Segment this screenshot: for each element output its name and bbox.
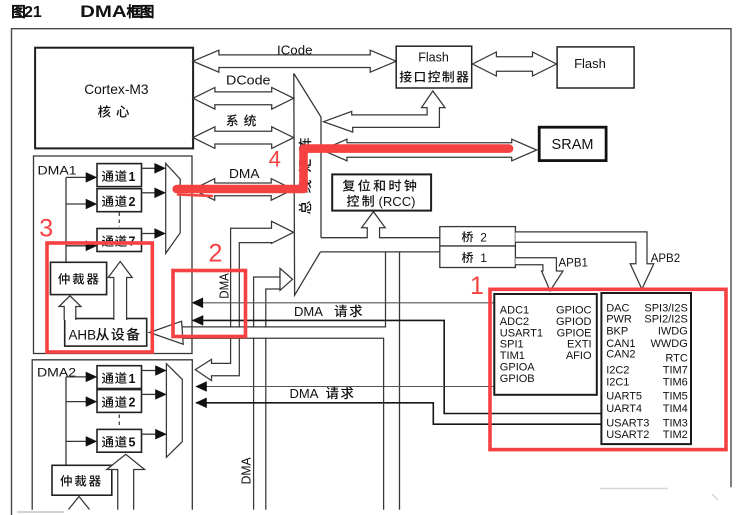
svg-text:USART3: USART3 [606, 418, 649, 430]
svg-text:APB1: APB1 [559, 258, 588, 270]
svg-text:I2C1: I2C1 [606, 376, 629, 388]
svg-text:TIM6: TIM6 [663, 376, 688, 388]
svg-text:APB2: APB2 [651, 253, 680, 265]
svg-text:4: 4 [269, 147, 281, 172]
svg-text:UART5: UART5 [606, 390, 642, 402]
svg-text:1: 1 [480, 251, 487, 265]
svg-text:1: 1 [129, 170, 136, 184]
svg-text:2: 2 [129, 195, 136, 209]
svg-text:I2C2: I2C2 [606, 365, 629, 377]
svg-text:AHB: AHB [69, 328, 97, 343]
svg-text:2: 2 [129, 396, 136, 410]
svg-text:1: 1 [129, 372, 136, 386]
svg-text:GPIOA: GPIOA [500, 362, 536, 374]
svg-text:GPIOC: GPIOC [556, 305, 592, 317]
svg-text:DMA: DMA [80, 3, 127, 21]
svg-text:ADC1: ADC1 [500, 305, 529, 317]
svg-text:1: 1 [470, 272, 484, 300]
svg-text:BKP: BKP [606, 326, 628, 338]
svg-text:2: 2 [480, 230, 487, 244]
svg-text:SPI2/I2S: SPI2/I2S [644, 314, 687, 326]
svg-text:DMA: DMA [240, 457, 254, 485]
svg-text:ICode: ICode [277, 43, 313, 58]
svg-text:SPI3/I2S: SPI3/I2S [644, 302, 687, 314]
svg-text:USART1: USART1 [500, 327, 543, 339]
svg-text:SRAM: SRAM [552, 137, 594, 153]
svg-text:GPIOE: GPIOE [557, 327, 592, 339]
svg-text:Cortex-M3: Cortex-M3 [84, 82, 149, 97]
svg-text:PWR: PWR [606, 314, 632, 326]
svg-text:Flash: Flash [574, 56, 606, 71]
svg-text:CAN2: CAN2 [606, 349, 635, 361]
svg-text:3: 3 [39, 215, 53, 243]
svg-text:AFIO: AFIO [566, 350, 592, 362]
svg-text:EXTI: EXTI [567, 339, 591, 351]
svg-text:WWDG: WWDG [651, 338, 688, 350]
svg-text:DAC: DAC [606, 302, 629, 314]
svg-text:DMA1: DMA1 [38, 164, 77, 178]
svg-text:DMA: DMA [229, 167, 260, 181]
svg-text:TIM1: TIM1 [500, 350, 525, 362]
svg-text:21: 21 [24, 4, 42, 21]
svg-text:UART4: UART4 [606, 403, 642, 415]
svg-text:5: 5 [129, 436, 136, 450]
svg-text:TIM3: TIM3 [663, 418, 688, 430]
svg-text:GPIOB: GPIOB [500, 373, 535, 385]
svg-text:USART2: USART2 [606, 429, 649, 441]
svg-text:TIM2: TIM2 [663, 429, 688, 441]
svg-text:TIM7: TIM7 [663, 365, 688, 377]
svg-text:Flash: Flash [418, 51, 449, 65]
svg-text:GPIOD: GPIOD [556, 316, 592, 328]
svg-text:TIM5: TIM5 [663, 390, 688, 402]
svg-text:RTC: RTC [665, 352, 687, 364]
svg-text:ADC2: ADC2 [500, 316, 529, 328]
svg-text:TIM4: TIM4 [663, 403, 688, 415]
svg-text:IWDG: IWDG [658, 326, 688, 338]
svg-text:DMA: DMA [290, 386, 319, 401]
svg-text:(RCC): (RCC) [379, 194, 416, 209]
svg-text:2: 2 [209, 240, 223, 268]
svg-text:DMA: DMA [294, 304, 323, 319]
svg-text:DCode: DCode [226, 73, 271, 88]
svg-text:DMA: DMA [217, 273, 231, 299]
svg-text:SPI1: SPI1 [500, 339, 524, 351]
